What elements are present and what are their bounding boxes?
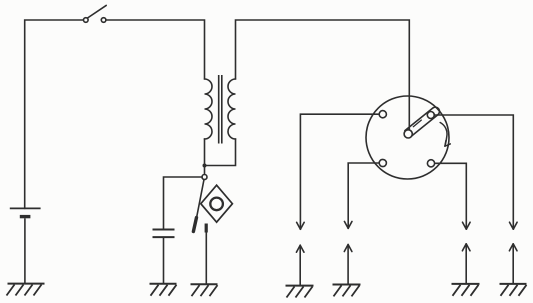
contact breaker: moving arm [197,180,204,218]
ground (battery) [7,284,45,296]
ground (spark plug 2) [333,285,361,297]
distributor terminal 1 (upper-left) [379,111,386,118]
rotor arm [405,107,440,137]
wire: terminal 3 to spark plug 3 [431,163,466,229]
wire: battery positive to switch (top-left horizontal + left vertical) [25,20,84,208]
ignition coil T1: core [219,75,222,144]
wire: fixed contact to ground [205,233,207,284]
cam shaft circle [210,198,223,211]
wire: node to capacitor [164,177,203,229]
ignition coil T1: secondary winding [228,79,235,139]
spark plug 1 [296,222,304,285]
ground (spark plug 4) [500,284,527,296]
switch S1 [84,5,107,22]
wire: rotor tip to spark plug 4 [434,115,513,229]
spark plug 4 [509,222,517,283]
wire: capacitor to ground [163,238,165,284]
ground (spark plug 1) [286,286,314,298]
ignition coil T1: primary winding [205,79,213,139]
capacitor C1 [153,230,175,238]
wire: terminal 1 to spark plug 1 [300,114,382,229]
spark plug 3 [462,222,470,283]
battery B1 [10,208,41,283]
rotor centre circle [404,130,412,138]
junction dot [203,164,207,168]
wire: switch to coil primary top [106,20,205,79]
distributor terminal 2 (lower-left) [379,159,386,166]
contact breaker: moving contact (thick tip) [193,218,196,232]
rotor tip terminal [427,112,434,119]
cam (distributor cam, diamond) [201,185,233,222]
wire: secondary top to distributor rotor centre [236,20,410,129]
wire: secondary bottom to junction [206,139,236,166]
distributor body (circle) [366,96,449,179]
wire: primary bottom to node [204,139,206,175]
node (points junction, open circle) [202,175,207,180]
ground (capacitor) [150,284,177,296]
spark plug 2 [344,221,352,284]
ground (spark plug 3) [452,284,480,296]
contact breaker: fixed contact [205,224,208,233]
ground (contact breaker) [191,284,218,296]
distributor terminal 3 (lower-right) [427,160,434,167]
rotation arrow [440,123,450,147]
wire: terminal 2 to spark plug 2 [348,163,383,228]
